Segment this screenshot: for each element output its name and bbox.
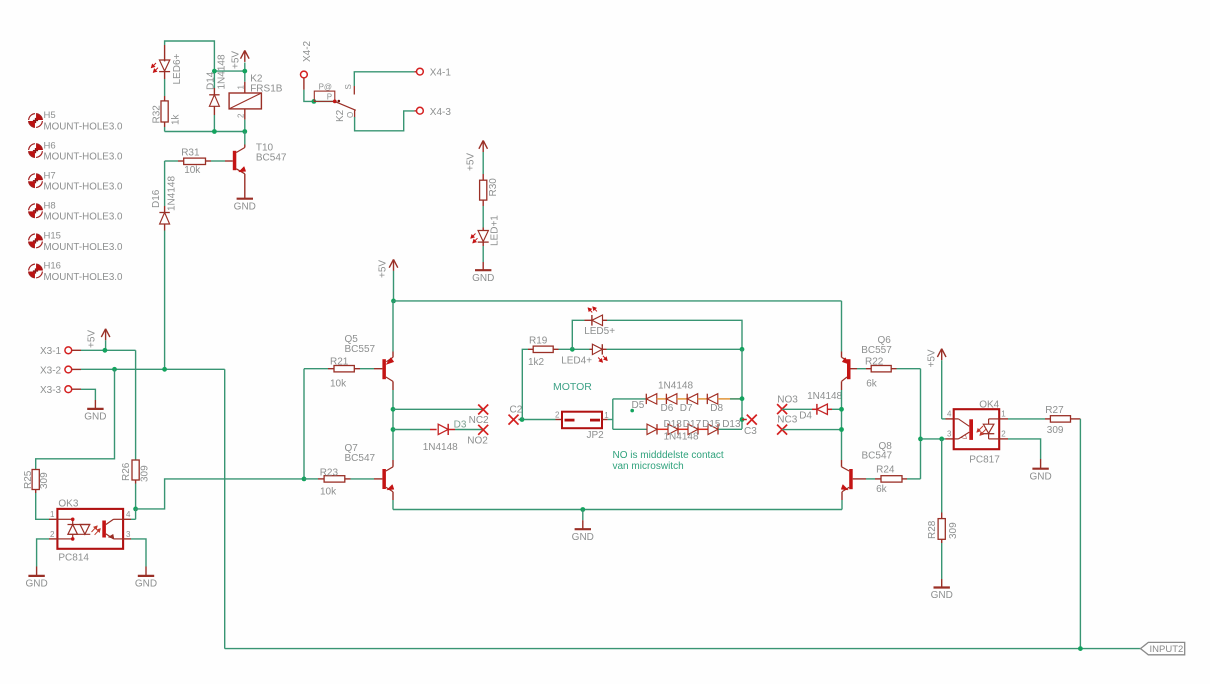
svg-text:GND: GND — [135, 579, 157, 590]
diode D16 1N4148 — [151, 176, 178, 231]
svg-text:LED4+: LED4+ — [561, 356, 592, 367]
svg-text:NC3: NC3 — [777, 415, 797, 426]
power +5V (relay) — [230, 50, 249, 69]
svg-text:+5V: +5V — [378, 260, 389, 278]
transistor Q5 BC557 — [345, 334, 394, 390]
svg-text:D6: D6 — [661, 403, 674, 414]
svg-text:R25: R25 — [23, 470, 34, 489]
wire right LED rail down — [741, 349, 743, 429]
label upper chain 1N4148 — [658, 380, 693, 391]
power +5V (OK4) — [926, 349, 946, 419]
diode D7 — [687, 394, 698, 404]
resistor R32 1k — [151, 96, 181, 127]
svg-text:R21: R21 — [330, 356, 349, 367]
wire NC2 stub — [393, 408, 482, 410]
svg-text:1N4148: 1N4148 — [167, 176, 178, 211]
svg-text:1: 1 — [236, 85, 245, 90]
power +5V (R30 branch) — [466, 141, 488, 172]
switch K2 contact S — [344, 84, 354, 94]
power +5V (X3-1) — [86, 329, 110, 351]
svg-text:GND: GND — [84, 412, 106, 423]
wire R28 branch — [941, 439, 943, 513]
label D18 D17 D15 D13 — [664, 419, 741, 430]
ground OK4 pin2 — [1029, 459, 1051, 482]
wire R25 branch from X3-2 — [36, 369, 115, 469]
junction NO3 tap — [839, 407, 844, 412]
LED LED5+ — [584, 307, 615, 337]
junction NC3 tap — [839, 427, 844, 432]
svg-text:R19: R19 — [529, 336, 548, 347]
wire OK4 pin2 to ground — [999, 439, 1040, 459]
ground X3-3 — [84, 400, 106, 423]
resistor R19 1k2 — [528, 336, 559, 368]
mount hole H8 — [27, 201, 123, 223]
svg-text:R24: R24 — [876, 465, 895, 476]
flag INPUT2 — [1141, 642, 1185, 655]
wire R27 down to INPUT2 line — [1079, 419, 1081, 649]
wire O contact to X4-3 — [355, 111, 415, 131]
wire relay pin2 to rail — [244, 120, 246, 132]
label D5 — [630, 400, 644, 412]
svg-text:6k: 6k — [866, 379, 878, 390]
wire lower chain to right rail — [718, 428, 742, 430]
svg-text:R22: R22 — [865, 356, 884, 367]
svg-text:MOUNT-HOLE3.0: MOUNT-HOLE3.0 — [44, 242, 123, 253]
svg-text:MOUNT-HOLE3.0: MOUNT-HOLE3.0 — [44, 212, 123, 223]
svg-text:NO2: NO2 — [467, 436, 488, 447]
diode chain link D6-D7 — [677, 398, 687, 400]
wire ground stub — [582, 510, 584, 521]
power +5V (H-bridge) — [378, 259, 398, 301]
svg-text:X3-3: X3-3 — [40, 385, 62, 396]
junction X3-2/D16 tap — [162, 367, 167, 372]
wire LED4 to right rail — [607, 348, 743, 350]
svg-text:NO3: NO3 — [777, 395, 798, 406]
junction X3-2/R25 tap — [112, 367, 117, 372]
node C3 — [744, 415, 757, 437]
wire pole node to pivot — [314, 100, 335, 102]
wire NO3 to D4 — [782, 408, 812, 410]
svg-text:MOUNT-HOLE3.0: MOUNT-HOLE3.0 — [44, 121, 123, 132]
connector pin X3-3 — [40, 385, 81, 396]
svg-text:MOUNT-HOLE3.0: MOUNT-HOLE3.0 — [44, 272, 123, 283]
svg-text:GND: GND — [572, 532, 594, 543]
svg-text:S: S — [344, 84, 353, 89]
svg-text:D14: D14 — [206, 71, 217, 90]
resistor R21 10k — [304, 356, 374, 389]
junction at D14/+5V — [212, 69, 217, 74]
node NO3 — [777, 395, 798, 415]
connector pin X3-2 — [40, 365, 81, 376]
junction R22/R24/OK4 pin3 — [918, 437, 923, 442]
svg-text:LED+1: LED+1 — [490, 215, 501, 246]
svg-text:GND: GND — [931, 590, 953, 601]
transistor Q8 BC547 — [841, 441, 892, 500]
switch K2 arm — [333, 100, 356, 123]
svg-text:R31: R31 — [181, 148, 200, 159]
svg-text:1k: 1k — [171, 113, 182, 125]
diode D4 1N4148 — [799, 391, 842, 421]
svg-text:D4: D4 — [799, 410, 812, 421]
svg-text:H5: H5 — [44, 110, 56, 121]
svg-text:OK3: OK3 — [58, 499, 78, 510]
diode D15 — [688, 424, 698, 434]
diode chain link D17-D15 — [678, 428, 688, 430]
junction NC2 tap — [391, 407, 396, 412]
wire bottom rail of relay loop — [165, 131, 245, 133]
svg-text:2: 2 — [1001, 430, 1006, 439]
svg-text:LED6+: LED6+ — [172, 53, 183, 84]
svg-text:X4-2: X4-2 — [302, 40, 313, 62]
wire R31 corner down to D16 — [164, 161, 166, 206]
svg-text:GND: GND — [234, 201, 256, 212]
svg-text:MOTOR: MOTOR — [553, 381, 592, 393]
svg-text:10k: 10k — [320, 486, 337, 497]
resistor R25 309 — [23, 470, 50, 494]
mount hole H15 — [27, 231, 123, 253]
svg-text:FRS1B: FRS1B — [250, 83, 283, 94]
svg-text:D18: D18 — [664, 419, 683, 430]
svg-text:NO is midddelste contact: NO is midddelste contact — [613, 450, 724, 461]
resistor R23 10k — [304, 467, 374, 497]
svg-text:X3-1: X3-1 — [40, 346, 62, 357]
wire LED6 to R32 — [164, 79, 166, 96]
wire S contact to X4-1 — [354, 72, 414, 86]
wire LED+1 to ground — [482, 246, 484, 262]
svg-text:P@: P@ — [319, 82, 332, 91]
junction relay/T10 at rail — [242, 129, 247, 134]
mount hole H16 — [27, 261, 123, 283]
wire R21 R23 tie — [303, 369, 305, 479]
svg-text:H7: H7 — [44, 170, 56, 181]
diode chain link D5-D6 — [657, 398, 667, 400]
svg-text:D8: D8 — [710, 403, 723, 414]
diode chain link D7-D8 — [698, 398, 708, 400]
svg-text:D3: D3 — [454, 419, 467, 430]
diode chain link D18-D17 — [657, 428, 668, 430]
connector pin X4-3 — [414, 107, 451, 118]
junction OK3 pin4 node — [133, 507, 138, 512]
label MOTOR — [553, 381, 592, 393]
switch K2 pole box P — [314, 82, 335, 101]
svg-text:6k: 6k — [876, 484, 888, 495]
svg-text:K2: K2 — [335, 109, 346, 122]
svg-text:JP2: JP2 — [587, 430, 605, 441]
svg-text:van microswitch: van microswitch — [613, 461, 684, 472]
wire R25 to OK3 pin1 — [36, 493, 49, 519]
node NC3 — [777, 415, 798, 435]
svg-text:BC547: BC547 — [256, 153, 287, 164]
wire X3-2 net — [81, 368, 225, 370]
ground below T10 — [234, 199, 256, 213]
svg-text:1N4148: 1N4148 — [658, 380, 693, 391]
wire R19 branch up — [522, 349, 528, 419]
junction C3 tap — [740, 417, 745, 422]
label lower chain 1N4148 — [664, 432, 699, 443]
diode D5 — [646, 394, 657, 404]
svg-text:R30: R30 — [488, 178, 499, 197]
svg-text:O: O — [346, 112, 355, 118]
svg-text:C3: C3 — [744, 426, 757, 437]
wire H-bridge top rail — [394, 300, 842, 302]
wire R32 to bottom rail — [164, 127, 166, 132]
svg-text:309: 309 — [39, 472, 50, 489]
svg-text:X4-3: X4-3 — [430, 107, 452, 118]
svg-text:MOUNT-HOLE3.0: MOUNT-HOLE3.0 — [44, 182, 123, 193]
wire +5V node to relay pin 1 — [214, 63, 244, 82]
wire upper chain to right rail — [718, 398, 742, 400]
wire R22 down to R24 — [920, 369, 922, 479]
svg-text:1N4148: 1N4148 — [423, 442, 458, 453]
wire INPUT2 line — [225, 648, 1141, 650]
transistor Q6 BC557 — [842, 335, 893, 390]
svg-text:4: 4 — [947, 410, 952, 419]
svg-text:GND: GND — [25, 579, 47, 590]
svg-text:3: 3 — [126, 530, 131, 539]
wire R26 to OK3 pin4 node — [135, 484, 137, 509]
wire +5V to R30 — [482, 152, 484, 174]
svg-text:INPUT2: INPUT2 — [1150, 644, 1184, 655]
diode D14 1N4148 — [206, 54, 228, 115]
svg-text:2: 2 — [555, 410, 560, 419]
resistor R27 309 — [999, 405, 1080, 436]
junction right rail LED4 — [740, 347, 745, 352]
wire Q6 collector to Q8 collector — [841, 390, 843, 460]
resistor R28 309 — [927, 513, 959, 544]
ground H-bridge — [572, 520, 594, 543]
diode D8 — [707, 394, 718, 404]
svg-text:P: P — [327, 93, 332, 102]
svg-text:R27: R27 — [1045, 405, 1064, 416]
wire Q6 emitter to rail — [841, 301, 843, 352]
wire to upper diode chain — [613, 398, 647, 400]
wire OK4 pin3 line — [921, 438, 954, 440]
ground OK3 pin2 — [25, 567, 47, 590]
svg-text:GND: GND — [472, 273, 494, 284]
resistor R22 6k — [857, 356, 921, 389]
wire OK3 output to R23 node — [136, 479, 304, 509]
wire rail to T10 collector — [244, 132, 246, 145]
wire to lower diode chain — [613, 428, 647, 430]
wire H-bridge bottom rail — [393, 509, 842, 511]
svg-text:D17: D17 — [683, 419, 702, 430]
wire C3 stub — [742, 419, 747, 421]
wire LED5 branch — [572, 320, 584, 349]
svg-text:D13: D13 — [722, 419, 741, 430]
wire R30 to LED+1 — [482, 206, 484, 228]
connector JP2 motor — [555, 410, 609, 441]
resistor R31 10k — [165, 148, 225, 176]
svg-text:R26: R26 — [121, 462, 132, 481]
wire D16 down to X3-2 net — [164, 231, 166, 370]
svg-text:2: 2 — [237, 113, 246, 118]
wire R28 to ground — [941, 543, 943, 579]
svg-text:BC547: BC547 — [862, 451, 893, 462]
svg-text:D15: D15 — [702, 419, 721, 430]
svg-text:H15: H15 — [44, 231, 61, 242]
wire D3 to NO2 — [455, 429, 482, 431]
junction X4-2 node — [312, 99, 317, 104]
wire LED5 to right rail — [607, 320, 742, 349]
junction at relay pin1 line — [242, 69, 247, 74]
wire Q8 emitter to bottom rail — [841, 500, 844, 510]
wire OK3 pin4 stub — [131, 509, 136, 519]
svg-text:4: 4 — [126, 510, 131, 519]
wire D4 to collector rail — [832, 408, 842, 410]
relay K2 FRS1B coil — [229, 74, 283, 120]
junction R27/INPUT2 — [1078, 646, 1083, 651]
ground OK3 pin3 — [135, 567, 157, 590]
svg-text:1k2: 1k2 — [528, 357, 545, 368]
connector pin X4-2 — [301, 40, 313, 89]
label D8 — [710, 403, 723, 414]
svg-text:R28: R28 — [927, 520, 938, 539]
diode D6 — [666, 394, 677, 404]
svg-text:H6: H6 — [44, 140, 56, 151]
optocoupler OK3 PC814 — [49, 499, 131, 564]
wire D14 bottom stub — [213, 115, 215, 132]
svg-text:309: 309 — [948, 522, 959, 539]
LED LED6+ — [151, 45, 183, 85]
node NC2 — [469, 405, 489, 427]
svg-text:R23: R23 — [320, 467, 339, 478]
svg-text:H16: H16 — [44, 261, 61, 272]
svg-text:1N4148: 1N4148 — [807, 391, 842, 402]
wire Q7 emitter to bottom rail — [392, 500, 394, 510]
wire to D3 — [393, 429, 430, 431]
svg-text:2: 2 — [50, 530, 55, 539]
connector pin X4-1 — [414, 68, 451, 79]
svg-text:309: 309 — [1047, 425, 1064, 436]
label D7 — [680, 403, 693, 414]
ground below LED+1 — [472, 262, 494, 284]
svg-text:1: 1 — [604, 411, 609, 420]
svg-text:+5V: +5V — [466, 153, 477, 171]
wire D14 top stub — [213, 71, 215, 88]
svg-text:+5V: +5V — [230, 51, 241, 69]
wire X3-1 net — [81, 350, 136, 460]
LED LED4+ — [561, 344, 607, 366]
transistor Q7 BC547 — [345, 443, 394, 500]
annotation NO is midddelste contact — [613, 450, 724, 461]
resistor R26 309 — [121, 460, 151, 484]
svg-text:309: 309 — [140, 465, 151, 482]
svg-text:R32: R32 — [151, 105, 162, 124]
svg-text:3: 3 — [947, 430, 952, 439]
svg-text:+5V: +5V — [86, 330, 97, 348]
switch K2 contact O — [346, 110, 355, 118]
svg-text:1: 1 — [1001, 410, 1006, 419]
svg-text:PC814: PC814 — [58, 553, 89, 564]
mount hole H6 — [27, 140, 123, 162]
junction base drive node — [302, 477, 307, 482]
connector pin X3-1 — [40, 346, 81, 357]
ground R28 — [931, 579, 953, 601]
wire X3-3 to ground — [81, 389, 95, 400]
svg-text:10k: 10k — [184, 165, 201, 176]
svg-text:1: 1 — [50, 510, 55, 519]
wire X4-2 to switch pole — [304, 90, 314, 102]
svg-text:1N4148: 1N4148 — [664, 432, 699, 443]
wire JP2 pin1 to diode chains — [608, 399, 613, 429]
svg-text:PC817: PC817 — [969, 455, 1000, 466]
svg-text:+5V: +5V — [926, 349, 937, 367]
junction C2/R19/JP2 — [520, 417, 525, 422]
annotation van microswitch — [613, 461, 684, 472]
svg-text:C2: C2 — [510, 405, 523, 416]
wire X3-2 down to INPUT2 line — [224, 369, 226, 648]
diode D18 — [647, 424, 657, 434]
junction X3-1/+5V — [103, 348, 108, 353]
transistor T10 BC547 — [225, 143, 287, 199]
wire C2 node to JP2 — [519, 419, 556, 421]
junction NO2 tap — [391, 427, 396, 432]
wire NC3 to collector rail — [782, 429, 841, 431]
svg-text:D16: D16 — [151, 189, 162, 208]
mount hole H5 — [27, 110, 123, 132]
svg-text:BC557: BC557 — [345, 344, 376, 355]
svg-text:X3-2: X3-2 — [40, 365, 62, 376]
wire OK3 pin2 to ground — [37, 539, 49, 567]
wire Q5 emitter to rail — [392, 301, 394, 352]
svg-text:GND: GND — [1029, 471, 1051, 482]
label D6 — [661, 403, 674, 414]
LED LED+1 — [471, 215, 501, 246]
junction LED5 tap — [570, 347, 575, 352]
svg-text:H8: H8 — [44, 201, 56, 212]
wire Q5 collector down to Q7 collector — [392, 390, 394, 460]
diode D17 — [668, 424, 678, 434]
svg-text:10k: 10k — [330, 379, 347, 390]
diode D3 1N4148 — [423, 419, 467, 453]
svg-text:MOUNT-HOLE3.0: MOUNT-HOLE3.0 — [44, 152, 123, 163]
svg-text:X4-1: X4-1 — [430, 68, 452, 79]
svg-text:BC557: BC557 — [861, 345, 892, 356]
diode D13 — [708, 424, 718, 434]
wire OK3 pin3 to ground — [131, 539, 146, 567]
wire OK4 pin4 stub — [942, 418, 954, 420]
node NO2 — [467, 425, 488, 447]
resistor R30 — [480, 174, 499, 206]
svg-text:D7: D7 — [680, 403, 693, 414]
optocoupler OK4 PC817 — [947, 400, 1006, 466]
junction bottom rail ground tap — [580, 507, 585, 512]
svg-text:LED5+: LED5+ — [584, 326, 615, 337]
mount hole H7 — [27, 170, 123, 192]
junction D14 at rail — [212, 129, 217, 134]
junction upper chain right rail — [740, 396, 745, 401]
node C2 — [509, 405, 523, 425]
junction +5V top rail — [391, 299, 396, 304]
svg-text:BC547: BC547 — [345, 453, 376, 464]
wire LED6 top loop to D14 node — [165, 41, 215, 71]
resistor R24 6k — [853, 465, 921, 495]
diode chain link D15-D13 — [698, 428, 708, 430]
svg-text:OK4: OK4 — [979, 400, 999, 411]
wire R19 to LED4 — [559, 348, 590, 350]
junction R28 tap — [939, 437, 944, 442]
